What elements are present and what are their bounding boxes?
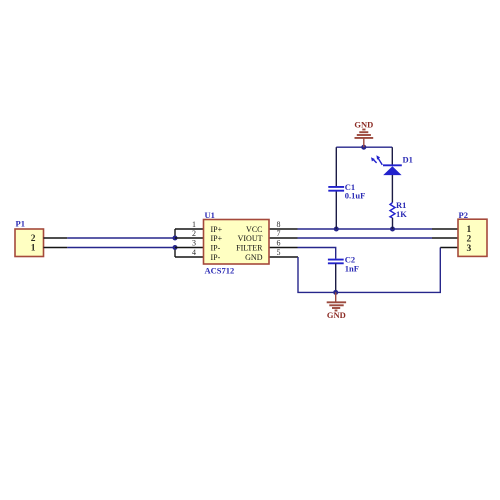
svg-text:ACS712: ACS712	[205, 266, 235, 276]
ic U1 ACS712	[192, 210, 281, 276]
junction IP-	[173, 245, 178, 250]
wire VCC net	[298, 228, 433, 230]
pin U1.7	[269, 237, 298, 239]
led arrow 1	[378, 158, 382, 165]
wire FILTER net to C2	[298, 248, 336, 259]
connector P1	[15, 219, 44, 257]
pin P1.2	[44, 237, 68, 239]
pin P2.3	[440, 247, 458, 249]
svg-text:0.1uF: 0.1uF	[345, 191, 366, 201]
svg-text:1: 1	[192, 220, 196, 229]
svg-text:1nF: 1nF	[345, 264, 359, 274]
wire IP+ net (P1.2 to U1)	[67, 237, 175, 239]
pin U1.6	[269, 247, 298, 249]
pin U1.5	[269, 256, 298, 258]
svg-text:1K: 1K	[396, 209, 407, 219]
svg-text:5: 5	[277, 248, 281, 257]
svg-text:6: 6	[277, 239, 281, 248]
svg-text:GND: GND	[354, 120, 373, 130]
svg-text:3: 3	[467, 244, 472, 254]
svg-text:4: 4	[192, 248, 196, 257]
svg-text:U1: U1	[205, 210, 215, 220]
svg-text:GND: GND	[245, 253, 263, 262]
wire IP- net (P1.1 to U1)	[67, 247, 175, 249]
svg-text:IP+: IP+	[211, 225, 223, 234]
ground GND bottom	[327, 292, 346, 320]
wire VIOUT net	[298, 237, 433, 239]
led arrow 2	[373, 160, 376, 163]
svg-text:FILTER: FILTER	[236, 244, 263, 253]
svg-text:IP-: IP-	[211, 253, 221, 262]
junction top GND stem	[361, 145, 366, 150]
junction bottom GND/C2	[333, 290, 338, 295]
svg-text:VIOUT: VIOUT	[238, 234, 263, 243]
capacitor C2	[328, 255, 359, 293]
capacitor C1	[328, 147, 365, 229]
pin U1.2	[175, 237, 204, 239]
pin P2.1	[432, 228, 458, 230]
svg-text:IP+: IP+	[211, 234, 223, 243]
pin U1.4	[175, 256, 204, 258]
pin U1.8	[269, 228, 298, 230]
svg-text:IP-: IP-	[211, 244, 221, 253]
pin U1.1	[175, 228, 204, 230]
svg-text:GND: GND	[327, 310, 346, 320]
pin P1.1	[44, 247, 68, 249]
svg-text:VCC: VCC	[246, 225, 262, 234]
ground GND top	[354, 120, 373, 148]
junction IP+	[173, 236, 178, 241]
wire top GND net	[336, 146, 392, 148]
led D1	[371, 147, 413, 202]
svg-text:P2: P2	[459, 210, 468, 220]
resistor R1	[390, 200, 407, 229]
wire GND net (U1.5 to P2.3)	[298, 248, 440, 293]
wire vertical joining U1 pins 3-4	[174, 248, 176, 258]
pin P2.2	[432, 237, 458, 239]
svg-text:7: 7	[277, 229, 281, 238]
svg-text:D1: D1	[403, 154, 413, 164]
svg-text:8: 8	[277, 220, 281, 229]
svg-text:2: 2	[192, 229, 196, 238]
wire vertical joining U1 pins 1-2	[174, 229, 176, 238]
svg-text:1: 1	[31, 244, 36, 254]
junction VCC/R1	[390, 227, 395, 232]
svg-text:3: 3	[192, 239, 196, 248]
junction VCC/C1	[334, 227, 339, 232]
pin U1.3	[175, 247, 204, 249]
connector P2	[458, 210, 487, 257]
svg-text:P1: P1	[16, 219, 25, 229]
